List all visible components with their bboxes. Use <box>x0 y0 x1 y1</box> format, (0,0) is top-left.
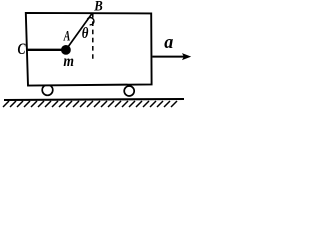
svg-text:C: C <box>18 40 26 58</box>
svg-text:m: m <box>63 53 74 70</box>
svg-text:a: a <box>164 31 173 53</box>
svg-text:A: A <box>63 27 70 43</box>
svg-text:B: B <box>93 0 102 15</box>
svg-text:θ: θ <box>82 25 89 42</box>
